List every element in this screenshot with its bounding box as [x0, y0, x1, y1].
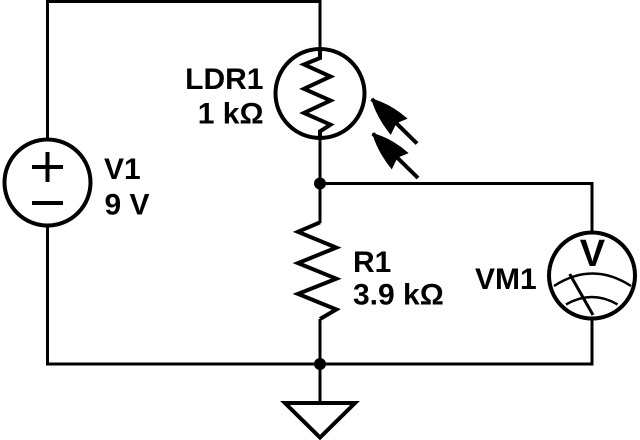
svg-text:9 V: 9 V: [105, 189, 150, 222]
svg-text:3.9 kΩ: 3.9 kΩ: [353, 279, 444, 312]
svg-text:VM1: VM1: [475, 263, 537, 296]
svg-text:R1: R1: [353, 246, 391, 279]
svg-text:1 kΩ: 1 kΩ: [198, 98, 264, 131]
svg-text:V1: V1: [104, 153, 141, 186]
svg-text:LDR1: LDR1: [185, 63, 263, 96]
svg-text:V: V: [580, 233, 606, 275]
